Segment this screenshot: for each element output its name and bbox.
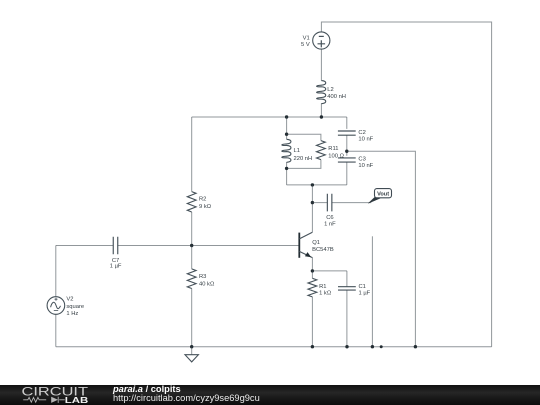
- node C1/rail: [345, 345, 348, 348]
- node emitter junction: [311, 269, 314, 272]
- wire tank right branch from rail: [346, 117, 348, 129]
- voltage source V2 (square): [47, 297, 84, 317]
- wire emitter to C1: [312, 270, 347, 272]
- wire top rail and right rail: [321, 22, 491, 347]
- inductor L2: [317, 81, 346, 104]
- wire left branch down to V2: [55, 246, 57, 297]
- svg-text:Q1: Q1: [312, 240, 320, 246]
- svg-text:R3: R3: [199, 274, 206, 280]
- svg-text:220 nH: 220 nH: [294, 156, 313, 162]
- footer bar: [0, 385, 540, 405]
- wire C3 to tank bottom: [346, 162, 348, 185]
- wire V2 to bottom rail: [55, 314, 57, 346]
- svg-text:1 nF: 1 nF: [324, 222, 336, 228]
- svg-text:R2: R2: [199, 197, 206, 203]
- wire V1 to L2: [320, 49, 322, 81]
- svg-text:40 kΩ: 40 kΩ: [199, 282, 215, 288]
- node L2/rail junction: [320, 115, 323, 118]
- ground: [185, 347, 198, 362]
- wire L2 to supply rail: [320, 103, 322, 117]
- svg-text:1 Hz: 1 Hz: [66, 311, 78, 317]
- node R3/ground junction: [190, 345, 193, 348]
- wire tank bottom rail: [287, 184, 347, 186]
- wire collector vertical: [311, 185, 313, 232]
- svg-text:Vout: Vout: [377, 192, 389, 198]
- svg-text:5 V: 5 V: [301, 42, 310, 48]
- wire supply rail: [192, 116, 347, 118]
- wire C2/C3 node to right vertical: [347, 151, 416, 347]
- CircuitLab logo: [0, 384, 110, 405]
- svg-text:L2: L2: [327, 87, 333, 93]
- resistor R3: [187, 246, 215, 347]
- svg-text:C1: C1: [359, 284, 366, 290]
- inductor L1: [282, 139, 312, 162]
- wire bottom ground rail: [56, 346, 492, 348]
- wire base rail (left segment to C7): [56, 245, 113, 247]
- capacitor C1: [338, 271, 371, 347]
- footer title text: [113, 385, 533, 405]
- svg-text:R11: R11: [328, 146, 338, 152]
- svg-text:C3: C3: [358, 157, 365, 163]
- wire tank left branch from rail: [286, 117, 288, 139]
- node R2/R3/base junction: [190, 244, 193, 247]
- capacitor C7: [110, 237, 122, 270]
- resistor R11: [317, 141, 345, 160]
- svg-text:10 nF: 10 nF: [358, 136, 373, 142]
- node probe/rail: [371, 345, 374, 348]
- voltage source V1: [301, 32, 330, 49]
- resistor R2: [187, 192, 211, 212]
- wire floating probe vertical: [371, 236, 373, 346]
- svg-text:10 nF: 10 nF: [358, 163, 373, 169]
- svg-text:C2: C2: [358, 130, 365, 136]
- node L1 top junction: [285, 133, 288, 136]
- svg-text:100 Ω: 100 Ω: [328, 154, 344, 160]
- node C6 tap junction: [311, 201, 314, 204]
- node R1/rail: [311, 345, 314, 348]
- node right feedback/rail: [414, 345, 417, 348]
- capacitor C6: [324, 194, 336, 228]
- svg-text:square: square: [66, 304, 84, 310]
- svg-text:1 µF: 1 µF: [110, 264, 122, 270]
- svg-text:BC547B: BC547B: [312, 247, 334, 253]
- wire R2 to base rail: [191, 212, 193, 246]
- svg-text:LAB: LAB: [65, 395, 89, 405]
- wire base rail (C7 to base): [118, 245, 299, 247]
- svg-text:1 µF: 1 µF: [359, 291, 371, 297]
- transistor Q1 BC547B: [299, 232, 334, 271]
- svg-text:400 nH: 400 nH: [327, 94, 346, 100]
- wire C6 to Vout: [332, 202, 371, 204]
- node tank left junction: [285, 115, 288, 118]
- svg-text:V2: V2: [66, 297, 73, 303]
- wire L1 top to R11 top: [287, 134, 321, 140]
- svg-text:C6: C6: [326, 215, 333, 221]
- svg-text:1 kΩ: 1 kΩ: [319, 291, 332, 297]
- node stray junction: [380, 345, 383, 348]
- svg-text:L1: L1: [294, 148, 300, 154]
- wire rail down to R2: [191, 117, 193, 192]
- node L1 bottom junction: [285, 167, 288, 170]
- node collector/tank junction: [311, 183, 314, 186]
- capacitor C2: [338, 130, 374, 142]
- wire L1 bottom / R11 bottom: [287, 160, 321, 185]
- wire C6 left lead: [312, 202, 327, 204]
- flag Vout: [368, 189, 391, 204]
- wire C2 to C3 node: [346, 135, 348, 156]
- capacitor C3: [338, 157, 374, 169]
- node C2/C3 junction: [345, 150, 348, 153]
- svg-text:9 kΩ: 9 kΩ: [199, 204, 212, 210]
- resistor R1: [308, 271, 332, 347]
- svg-text:V1: V1: [303, 36, 310, 42]
- svg-text:R1: R1: [319, 284, 326, 290]
